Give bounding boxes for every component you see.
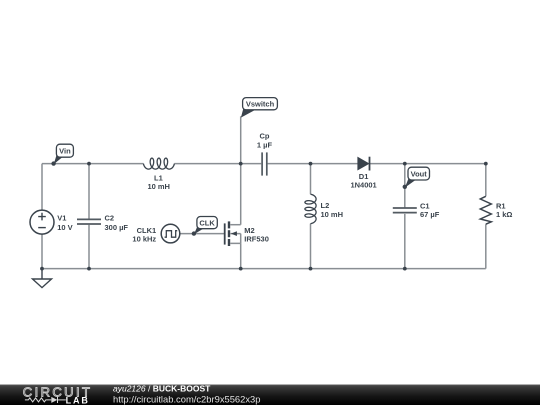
svg-text:CLK: CLK (199, 218, 215, 227)
svg-text:ayu2126 / BUCK-BOOST: ayu2126 / BUCK-BOOST (113, 384, 211, 394)
capacitor Cp (262, 152, 267, 175)
junction Vswitch node (239, 162, 243, 166)
M2 drain channel bar (228, 221, 230, 228)
svg-text:10 kHz: 10 kHz (132, 235, 156, 244)
M2 drain lead (230, 224, 241, 226)
wire C1 branch upper (404, 164, 406, 208)
svg-text:http://circuitlab.com/c2br9x55: http://circuitlab.com/c2br9x5562x3p (113, 393, 260, 404)
wire below V1 (41, 234, 43, 269)
svg-text:IRF530: IRF530 (244, 234, 269, 243)
svg-text:Vin: Vin (59, 146, 71, 155)
junction R1 top (484, 162, 488, 166)
footer bar (0, 384, 540, 405)
svg-text:10 V: 10 V (57, 223, 72, 232)
node flag Vout (403, 167, 430, 189)
wire top rail left segment (42, 116, 486, 268)
inductor L2 (305, 194, 316, 224)
wire CLK1 to gate (180, 233, 225, 235)
svg-text:10 mH: 10 mH (147, 182, 170, 191)
svg-text:Vswitch: Vswitch (246, 99, 275, 108)
transistor M2 (NMOS) (225, 221, 241, 246)
wire top rail segment after D1 (370, 163, 486, 165)
svg-text:Vout: Vout (411, 169, 428, 178)
wire C2 branch lower (88, 225, 90, 269)
wire top rail segment after Cp (268, 163, 358, 165)
footer mini resistor+diode (25, 397, 66, 403)
node flag CLK (192, 217, 218, 236)
svg-text:R1: R1 (496, 201, 506, 210)
resistor R1 (480, 196, 491, 224)
svg-text:300 µF: 300 µF (105, 223, 129, 232)
junction C1 bottom (403, 267, 407, 271)
wire R1 branch lower (485, 224, 487, 268)
diode D1 (358, 157, 370, 171)
M2 source and body leads (230, 234, 241, 244)
svg-text:LAB: LAB (66, 395, 90, 405)
wire MOSFET source to rail (240, 243, 242, 268)
svg-text:L2: L2 (321, 201, 330, 210)
wire bottom rail (42, 268, 486, 270)
wire Vswitch vertical (240, 116, 242, 224)
wire C2 branch upper (88, 164, 90, 219)
svg-text:Cp: Cp (260, 132, 270, 141)
svg-text:V1: V1 (57, 214, 66, 223)
wire R1 branch upper (485, 164, 487, 197)
svg-text:67 µF: 67 µF (420, 210, 440, 219)
svg-text:1 µF: 1 µF (257, 141, 273, 150)
node flag Vswitch (241, 98, 278, 118)
capacitor C1 (393, 208, 417, 213)
wire L2 branch upper (310, 164, 312, 195)
M2 body arrow (231, 231, 237, 236)
svg-text:1 kΩ: 1 kΩ (496, 210, 512, 219)
M2 body channel bar (228, 230, 230, 237)
junction M2 source bottom (239, 267, 243, 271)
wire top rail middle segment (174, 163, 261, 165)
svg-text:10 mH: 10 mH (321, 210, 344, 219)
junction L2 bottom (309, 267, 313, 271)
junction C2 top (87, 162, 91, 166)
junction Vout node (403, 162, 407, 166)
svg-text:1N4001: 1N4001 (350, 180, 376, 189)
voltage source V1 (30, 210, 54, 234)
ground (33, 269, 52, 288)
wire C1 branch lower (404, 214, 406, 269)
wire L2 branch lower (310, 224, 312, 269)
wire left rail vertical (41, 164, 43, 211)
junction L2 top (309, 162, 313, 166)
junction ground node (40, 267, 44, 271)
M2 gate line (224, 223, 226, 244)
M2 source channel bar (228, 239, 230, 246)
junction C2 bottom (87, 267, 91, 271)
svg-text:C1: C1 (420, 201, 430, 210)
inductor L1 (143, 158, 174, 169)
clock source CLK1 (161, 224, 180, 243)
capacitor C2 (77, 219, 101, 224)
node flag Vin (51, 144, 73, 166)
svg-text:C2: C2 (105, 214, 115, 223)
